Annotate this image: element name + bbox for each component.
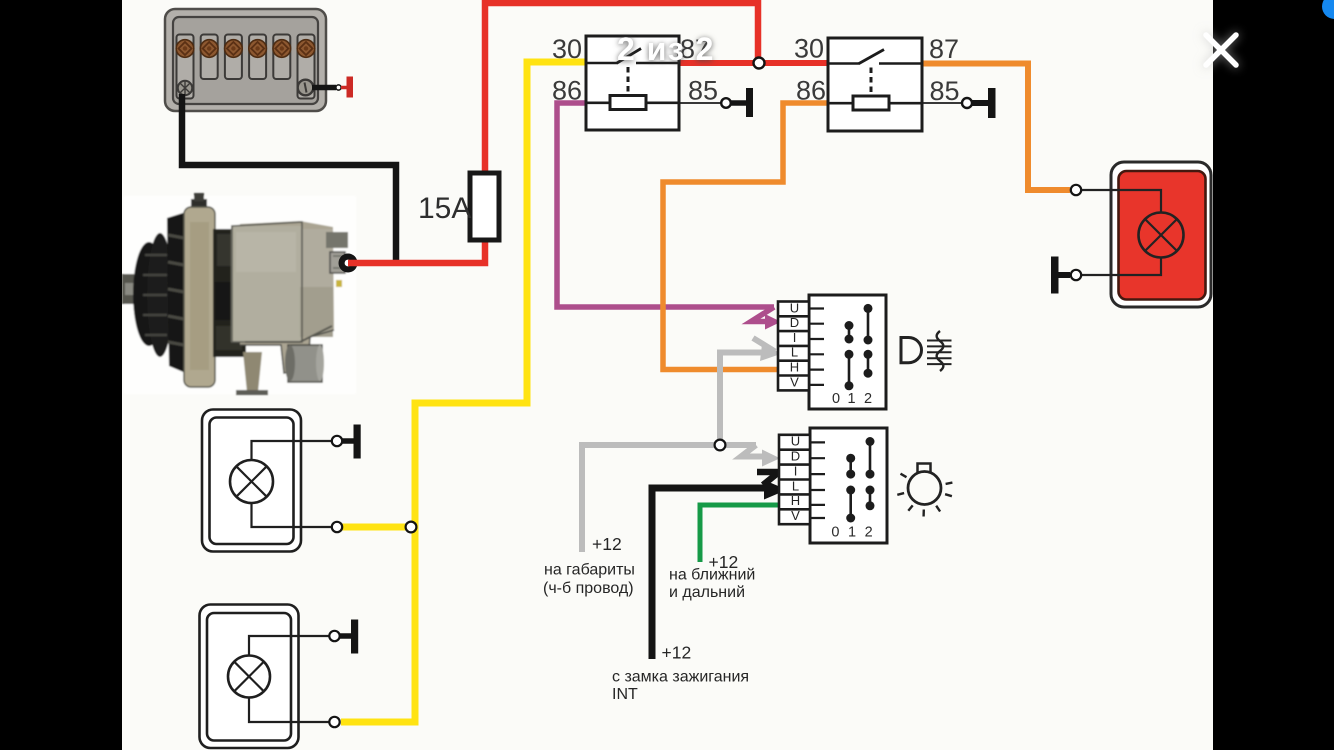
svg-text:U: U — [790, 300, 799, 315]
svg-text:H: H — [791, 493, 800, 508]
svg-text:H: H — [790, 360, 799, 375]
right letterbox bar — [1213, 0, 1334, 750]
svg-text:и дальний: и дальний — [669, 584, 745, 601]
wire red: fuse to relay junction — [485, 3, 758, 172]
SW2 contact slider column 1 — [846, 454, 855, 523]
wire orange: relay K2 86 to switch SW1 pin H — [663, 103, 828, 370]
svg-text:30: 30 — [552, 34, 582, 64]
svg-text:L: L — [792, 478, 799, 493]
battery + terminal (red T) — [341, 86, 347, 90]
headlight bulb icon — [897, 464, 952, 517]
fuse box output terminal — [298, 80, 314, 96]
SW2 position labels 0 1 2 — [831, 525, 872, 541]
fuse box ground screw — [178, 81, 192, 95]
fuse box FB1 — [165, 9, 326, 111]
svg-text:V: V — [791, 508, 800, 523]
purple zigzag arrow — [751, 307, 774, 322]
switch SW1 (fog light switch) — [778, 295, 886, 409]
node: red junction — [754, 58, 765, 69]
SW2 contact slider column 2 — [866, 437, 875, 510]
wire orange: relay K2 87 to fog lamp — [922, 64, 1070, 191]
svg-text:2: 2 — [864, 391, 872, 407]
FL1 plus terminal — [1071, 185, 1081, 195]
wire grey: branch to switch SW1 pin L — [720, 353, 764, 446]
wire green: +12 low/high beam to switch SW2 pin H — [700, 505, 780, 562]
SW1 position labels 0 1 2 — [832, 391, 872, 407]
overlay counter "2 из 2" — [617, 31, 715, 67]
parking lamp EL1 — [202, 410, 331, 552]
parking lamp EL2 — [200, 605, 330, 749]
svg-text:0: 0 — [832, 391, 840, 407]
svg-text:86: 86 — [552, 76, 582, 106]
alternator B+ ring terminal — [339, 254, 358, 273]
FL1 ground terminal — [1051, 257, 1059, 294]
left letterbox bar — [0, 0, 122, 750]
svg-text:на габариты: на габариты — [544, 562, 635, 579]
relay K1 pin 85 terminal — [679, 102, 721, 104]
wire fuse box to alternator (black) — [182, 94, 396, 261]
svg-text:на ближний: на ближний — [669, 567, 755, 584]
svg-text:+12: +12 — [662, 643, 692, 663]
wire grey: +12 side lights stub to junction and switch SW2 pin D — [582, 445, 756, 552]
fog lamp FL1 (red) — [1081, 162, 1211, 307]
SW2 pin letters U D I L H V — [791, 434, 800, 523]
svg-text:2: 2 — [865, 525, 873, 541]
svg-text:85: 85 — [688, 76, 718, 106]
node: yellow junction — [406, 522, 417, 533]
wire fuse box to battery terminal — [312, 85, 336, 91]
svg-text:0: 0 — [831, 525, 839, 541]
fuse F 15A — [470, 173, 499, 240]
blue notification dot — [1322, 0, 1334, 19]
svg-text:85: 85 — [930, 76, 960, 106]
svg-text:INT: INT — [612, 686, 638, 703]
svg-text:с замка зажигания: с замка зажигания — [612, 669, 749, 686]
SW1 pin letters U D I L H V — [790, 300, 799, 389]
svg-text:I: I — [794, 463, 798, 478]
EL2 plus terminal — [329, 631, 339, 641]
fuse contacts F1-F6 — [176, 40, 315, 58]
relay K1 — [586, 36, 679, 130]
EL2 minus terminal — [329, 717, 339, 727]
EL1 plus terminal — [332, 436, 342, 446]
node: grey junction — [715, 440, 726, 451]
relay K2 — [828, 38, 922, 131]
black zigzag arrow — [757, 472, 779, 485]
alternator G1 (photo) — [122, 193, 356, 395]
svg-text:I: I — [793, 330, 797, 345]
wire red: relay K1 87 to relay K2 30 — [679, 60, 828, 66]
svg-text:87: 87 — [929, 34, 959, 64]
svg-text:U: U — [791, 434, 800, 449]
relay K2 pin 85 terminal — [922, 102, 962, 104]
svg-text:+12: +12 — [592, 534, 622, 554]
wire black: +12 ignition to switch SW2 pin L — [652, 488, 766, 659]
EL1 minus terminal — [332, 522, 342, 532]
svg-text:L: L — [791, 345, 798, 360]
svg-text:2 из 2: 2 из 2 — [617, 31, 715, 67]
fog lamp icon — [901, 331, 952, 371]
wire yellow: branch to lamp EL1 — [341, 524, 412, 531]
svg-text:D: D — [791, 449, 800, 464]
svg-text:86: 86 — [796, 76, 826, 106]
grey zigzag arrow lower — [741, 445, 768, 457]
svg-text:(ч-б провод): (ч-б провод) — [543, 580, 634, 597]
svg-text:V: V — [790, 374, 799, 389]
grey zigzag arrow upper — [753, 338, 775, 352]
close button X — [1206, 35, 1236, 65]
SW1 contact slider column 1 — [845, 321, 854, 390]
wire yellow: relay K1 30 to parking lamps — [341, 62, 586, 722]
svg-text:15A: 15A — [418, 192, 471, 225]
wire red: alternator to fuse — [348, 242, 485, 263]
svg-text:1: 1 — [847, 391, 855, 407]
wire purple: relay K1 86 to switch SW1 pin D — [557, 103, 774, 307]
svg-text:30: 30 — [794, 34, 824, 64]
svg-text:1: 1 — [848, 525, 856, 541]
switch SW2 (headlight switch) — [779, 428, 887, 543]
SW1 contact slider column 2 — [864, 304, 873, 378]
svg-text:D: D — [790, 315, 799, 330]
